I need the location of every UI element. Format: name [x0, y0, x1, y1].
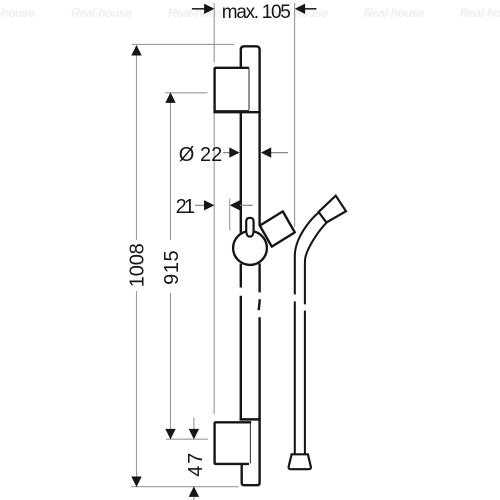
svg-text:Real-house: Real-house: [460, 6, 500, 20]
svg-text:Real-house: Real-house: [0, 6, 35, 20]
svg-text:915: 915: [161, 250, 183, 285]
svg-text:21: 21: [176, 196, 196, 218]
svg-text:max. 105: max. 105: [222, 2, 291, 23]
svg-text:1008: 1008: [127, 243, 149, 287]
svg-text:Ø 22: Ø 22: [179, 144, 223, 166]
svg-text:Real-house: Real-house: [364, 6, 425, 20]
svg-text:47: 47: [185, 453, 207, 477]
svg-text:Real-house: Real-house: [71, 6, 132, 20]
